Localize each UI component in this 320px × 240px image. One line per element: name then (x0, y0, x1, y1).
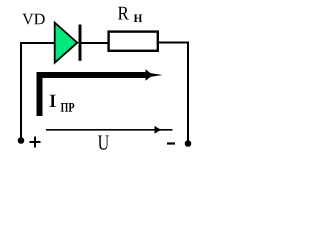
label I (49, 95, 56, 107)
thick current arrow shaft I_PR (40, 75, 147, 116)
wire anode to top-left corner down to plus node (21, 43, 55, 138)
node minus terminal dot (185, 140, 192, 147)
wire resistor to top-right corner down to minus node (158, 43, 188, 142)
minus sign (167, 142, 175, 144)
voltage arrow U line (46, 129, 173, 131)
voltage arrowhead (155, 126, 168, 134)
label VD (22, 14, 44, 25)
label U (98, 136, 109, 150)
thick current arrowhead (146, 69, 163, 81)
label subscript H (134, 15, 142, 23)
label R (118, 7, 129, 20)
wire cathode to resistor (80, 42, 108, 44)
diode cathode bar (79, 25, 82, 61)
label subscript PR (61, 103, 75, 112)
node plus terminal dot (18, 137, 25, 144)
diode VD triangle (55, 23, 78, 63)
plus sign (30, 137, 41, 148)
resistor R_H body (109, 32, 158, 51)
